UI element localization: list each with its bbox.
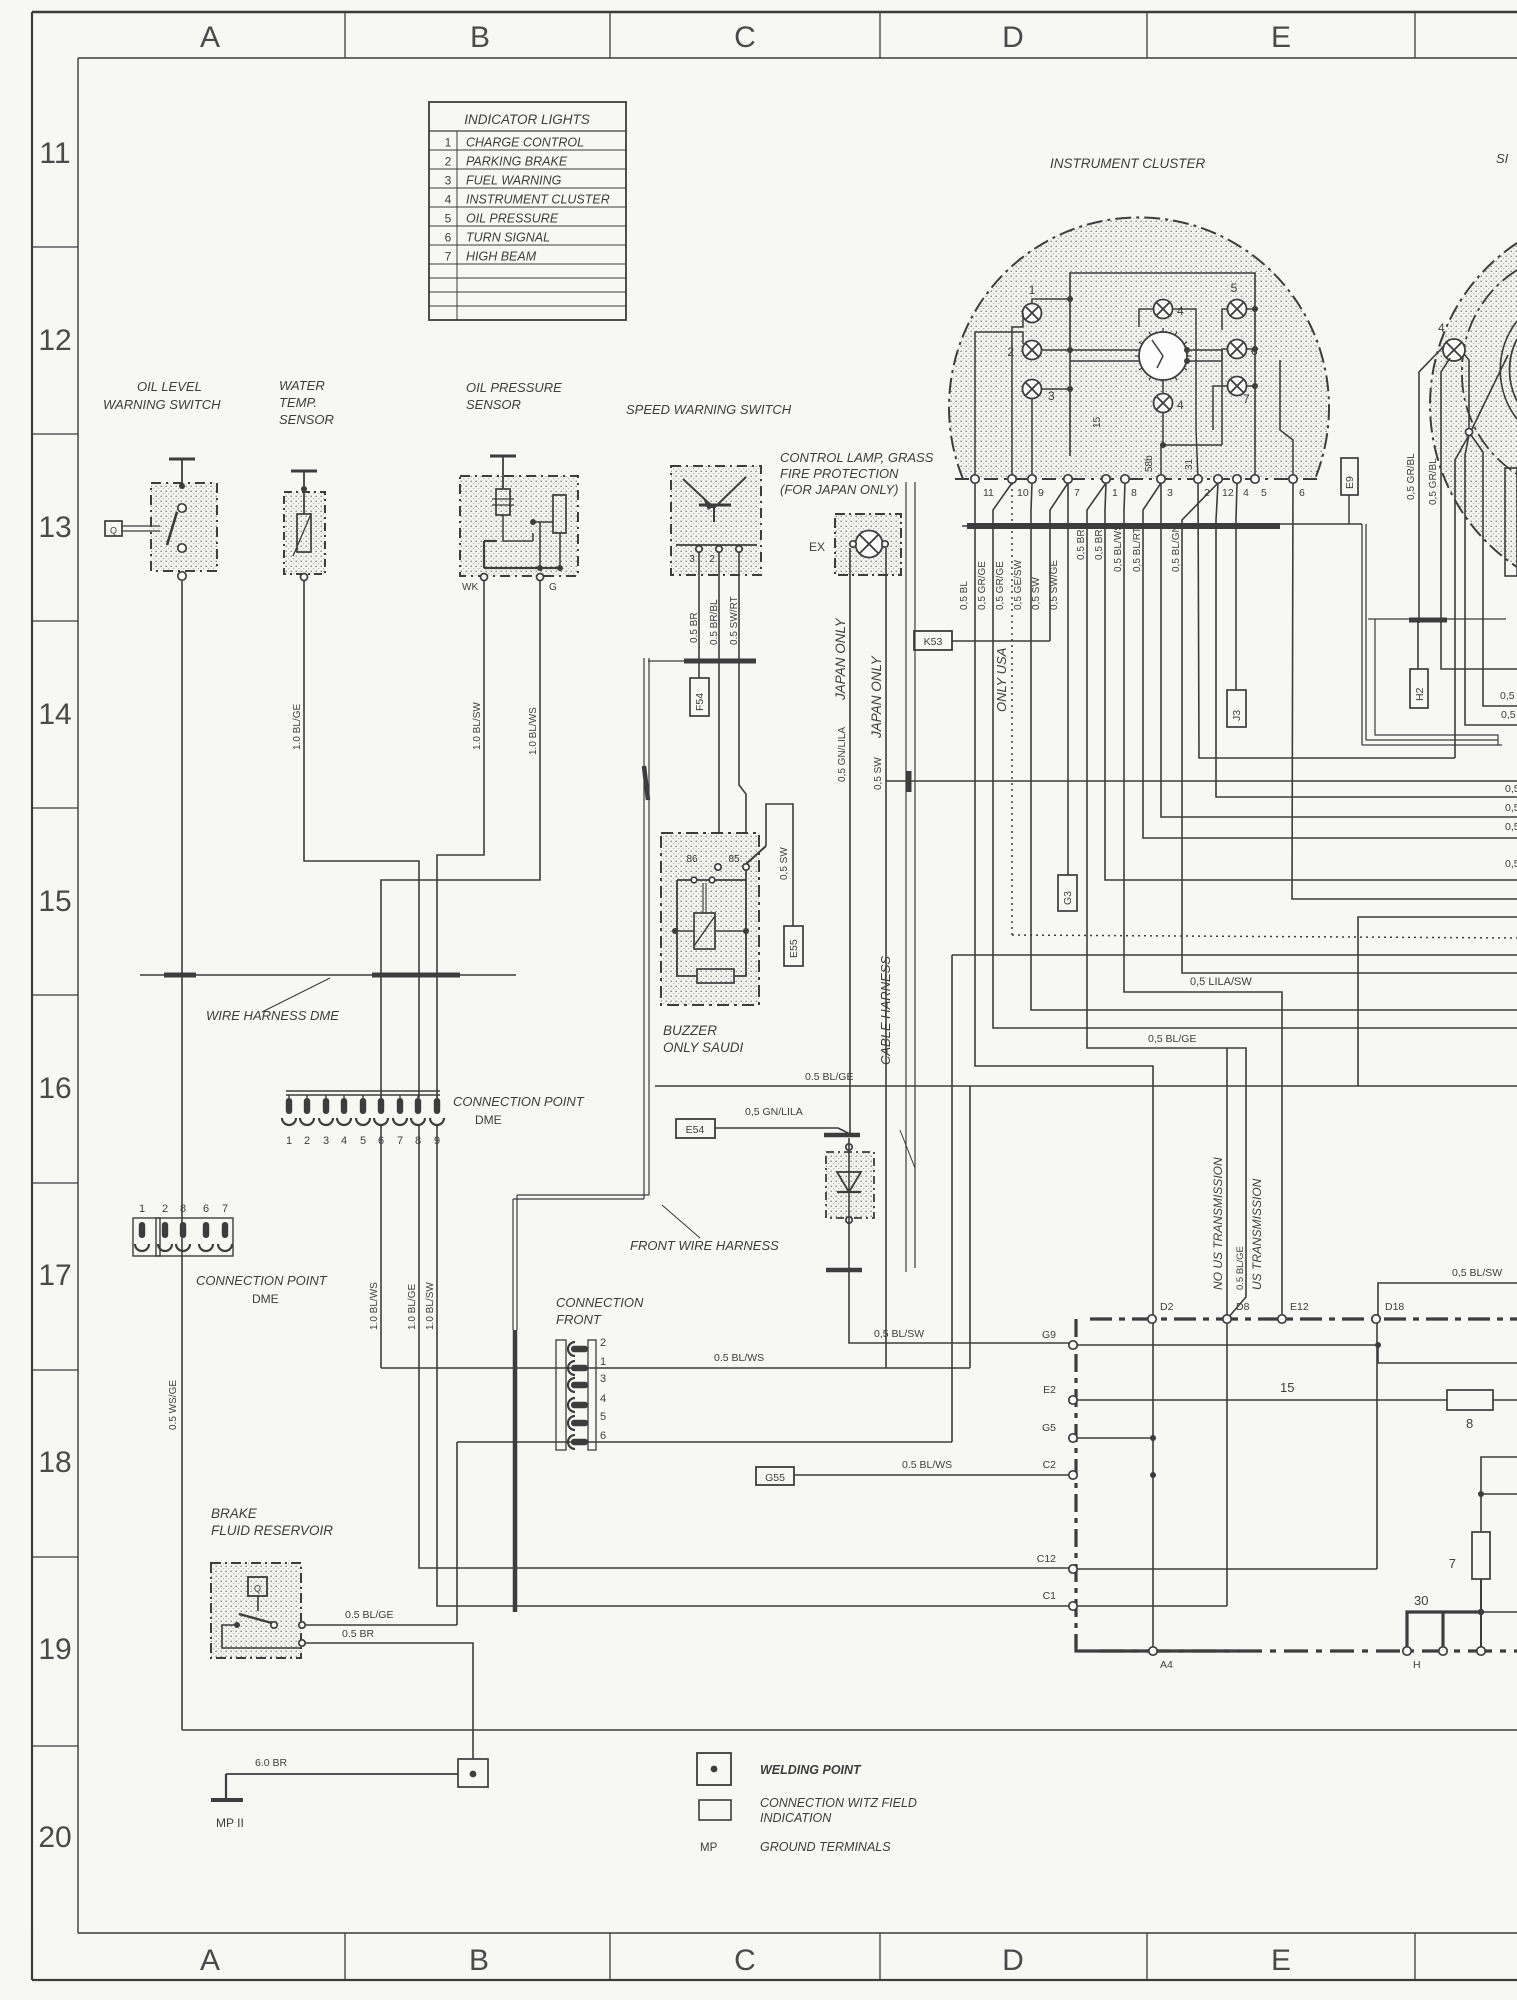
svg-text:8: 8 — [1131, 487, 1137, 499]
wire C2 junction — [1150, 1472, 1156, 1478]
svg-text:JAPAN ONLY: JAPAN ONLY — [833, 617, 848, 701]
svg-text:C: C — [734, 21, 756, 54]
svg-text:3: 3 — [1167, 487, 1173, 499]
svg-text:0,5 BL/GE: 0,5 BL/GE — [1148, 1033, 1196, 1045]
svg-text:6: 6 — [203, 1203, 209, 1215]
svg-text:G5: G5 — [1042, 1422, 1056, 1434]
connector G3 box — [1058, 875, 1077, 911]
svg-text:CONNECTION: CONNECTION — [556, 1295, 644, 1310]
buzzer switch blade — [746, 846, 766, 864]
buzzer internal wiring — [677, 879, 746, 881]
connector field pin C12 — [1069, 1565, 1077, 1573]
cluster bulb 4 bottom illumination — [1154, 394, 1173, 413]
diode pins — [846, 1144, 852, 1150]
svg-text:WK: WK — [462, 582, 478, 593]
wire H bus right — [1481, 1611, 1517, 1613]
cluster pin 6 — [1289, 475, 1297, 483]
svg-text:1.0 BL/WS: 1.0 BL/WS — [369, 1282, 380, 1330]
svg-text:2: 2 — [709, 554, 715, 565]
svg-text:FRONT WIRE HARNESS: FRONT WIRE HARNESS — [630, 1238, 779, 1253]
buzzer coil — [694, 913, 715, 949]
svg-text:4: 4 — [1438, 321, 1445, 335]
svg-text:SENSOR: SENSOR — [279, 412, 334, 427]
indicator lights table frame — [429, 102, 626, 320]
cluster internal wire bulb6 — [1246, 348, 1255, 350]
svg-text:19: 19 — [38, 1633, 71, 1666]
svg-text:8: 8 — [180, 1203, 186, 1215]
cluster bulb 6 turn signal — [1228, 340, 1247, 359]
cable harness channel — [905, 482, 907, 1272]
cluster internal top rail — [1070, 273, 1255, 456]
resistor 7 — [1472, 1532, 1490, 1579]
svg-text:(FOR JAPAN ONLY): (FOR JAPAN ONLY) — [780, 482, 898, 497]
wire cluster pin12 to fan 797 — [1216, 483, 1517, 797]
svg-text:0,5: 0,5 — [1505, 783, 1517, 795]
wire cluster pin3 to fan 817 — [1161, 483, 1517, 817]
svg-text:E: E — [1271, 21, 1291, 54]
svg-text:0,5 GR/BL: 0,5 GR/BL — [1428, 458, 1439, 505]
wire D18 drop to C12 line — [1376, 1323, 1378, 1569]
svg-text:E54: E54 — [686, 1124, 705, 1136]
connection point DME 9-pin connector — [286, 1090, 440, 1092]
svg-text:C: C — [734, 1944, 756, 1977]
svg-text:E9: E9 — [1344, 476, 1356, 489]
svg-text:C12: C12 — [1037, 1553, 1056, 1565]
top header ticks — [344, 12, 346, 58]
svg-text:7: 7 — [1243, 392, 1250, 406]
svg-text:SENSOR: SENSOR — [466, 397, 521, 412]
svg-text:E55: E55 — [788, 939, 800, 958]
oil pressure sensor right element — [553, 495, 566, 533]
svg-text:0,5 SW: 0,5 SW — [779, 847, 790, 880]
wire 0,5 GE/SW — [1050, 483, 1068, 641]
wire 0,5 BL/RT cluster pin3 — [1143, 483, 1517, 838]
svg-text:H: H — [1413, 1659, 1421, 1671]
buzzer right branch — [734, 870, 746, 976]
svg-text:HIGH BEAM: HIGH BEAM — [466, 250, 537, 264]
svg-text:2: 2 — [445, 155, 452, 169]
svg-text:G9: G9 — [1042, 1329, 1056, 1341]
wire harness DME bus — [140, 974, 516, 976]
wire 1.0 BL/WS from oil pressure G to pin6 — [381, 581, 540, 1098]
control lamp box — [835, 514, 901, 575]
brake fluid switch — [234, 1622, 240, 1628]
svg-text:0,5 BL/RT: 0,5 BL/RT — [1132, 527, 1143, 572]
wire 0,5 GR/BL to right edge — [1441, 622, 1517, 669]
svg-text:D: D — [1002, 21, 1024, 54]
connector G55 box — [756, 1467, 794, 1485]
wire 1.0 BL/SW from oil pressure WK to pin9 — [437, 581, 484, 1098]
buzzer resistor — [697, 969, 734, 983]
connector field pin G9 — [1069, 1341, 1077, 1349]
svg-text:WATER: WATER — [279, 378, 325, 393]
svg-text:4: 4 — [600, 1393, 606, 1405]
svg-text:0,5 GR/GE: 0,5 GR/GE — [995, 561, 1006, 610]
cluster pin 3 — [1157, 475, 1165, 483]
svg-text:OIL PRESSURE: OIL PRESSURE — [466, 212, 559, 226]
svg-text:BUZZER: BUZZER — [663, 1023, 717, 1038]
svg-text:20: 20 — [38, 1821, 71, 1854]
wire 0,5 GR/BL first — [1419, 346, 1444, 623]
right cluster bulb 4 — [1443, 339, 1465, 361]
svg-text:1: 1 — [445, 136, 452, 150]
svg-text:WELDING POINT: WELDING POINT — [760, 1763, 862, 1777]
svg-text:F54: F54 — [694, 693, 706, 711]
svg-text:15: 15 — [1280, 1380, 1294, 1395]
cluster internal wire bulb4 bottom — [1162, 380, 1164, 394]
svg-text:7: 7 — [397, 1135, 403, 1147]
svg-text:2: 2 — [1007, 345, 1014, 359]
buzzer pin 86 — [715, 864, 721, 870]
wire cluster pin2 right fan — [1198, 483, 1455, 758]
fuse F54 box — [690, 678, 709, 716]
svg-text:86: 86 — [686, 854, 698, 865]
svg-text:0,5 BL/SW: 0,5 BL/SW — [874, 1328, 924, 1340]
svg-text:OIL PRESSURE: OIL PRESSURE — [466, 380, 562, 395]
svg-text:1: 1 — [139, 1203, 145, 1215]
svg-text:B: B — [470, 21, 490, 54]
ground MP II — [225, 1774, 227, 1799]
svg-text:0.5 BL/WS: 0.5 BL/WS — [714, 1352, 764, 1364]
legend welding point symbol — [697, 1753, 731, 1785]
wire fan 955 — [952, 954, 1517, 956]
buzzer relay box only saudi — [661, 833, 759, 1005]
water temp sensor box — [284, 492, 325, 574]
svg-text:5: 5 — [360, 1135, 366, 1147]
cluster pin 1 — [1102, 475, 1110, 483]
svg-text:0,5 GR/GE: 0,5 GR/GE — [977, 561, 988, 610]
svg-text:DME: DME — [252, 1292, 279, 1306]
bottom long wire — [182, 1729, 1517, 1731]
oil pressure sensor element — [496, 489, 510, 515]
svg-text:1: 1 — [286, 1135, 292, 1147]
svg-text:13: 13 — [38, 511, 71, 544]
cluster pin 8 — [1121, 475, 1129, 483]
svg-text:85: 85 — [728, 854, 740, 865]
svg-text:5: 5 — [1231, 281, 1238, 295]
front wire harness heavy lead — [513, 1330, 518, 1612]
cluster wire to pin5 — [1254, 456, 1256, 479]
svg-text:CABLE HARNESS: CABLE HARNESS — [878, 956, 893, 1065]
wire pin6 line left corner down — [456, 1442, 458, 1625]
wire 6.0 BR — [226, 1773, 458, 1775]
right cluster dial arcs — [1462, 270, 1517, 474]
svg-text:BRAKE: BRAKE — [211, 1506, 258, 1521]
cluster internal wire bulb7 — [1246, 385, 1255, 387]
oil pressure sensor box — [460, 476, 578, 576]
svg-text:C1: C1 — [1043, 1590, 1057, 1602]
wire cluster pin6 to fan 895 — [1292, 483, 1517, 899]
connector field pin E2 — [1069, 1396, 1077, 1404]
cable channel right inner — [1375, 619, 1498, 745]
wire 0.5 SW to E55 — [766, 804, 793, 926]
cable channel right — [1361, 524, 1363, 745]
brake fluid pins — [299, 1622, 305, 1628]
svg-text:DME: DME — [475, 1113, 502, 1127]
svg-text:1.0 BL/WS: 1.0 BL/WS — [528, 707, 539, 755]
cluster pin 12 — [1214, 475, 1222, 483]
wire 970 riser — [969, 1086, 971, 1368]
svg-text:ONLY SAUDI: ONLY SAUDI — [663, 1040, 744, 1055]
wire G9 to D18 junction — [1077, 1344, 1378, 1346]
legend connection witz field symbol — [699, 1800, 731, 1820]
buzzer left branch — [677, 880, 697, 976]
svg-text:CONNECTION WITZ FIELD: CONNECTION WITZ FIELD — [760, 1796, 917, 1810]
front wire harness channel vertical — [643, 658, 645, 1199]
connector field pin E12 — [1278, 1315, 1286, 1323]
inner frame left — [77, 58, 79, 1933]
svg-text:INDICATOR LIGHTS: INDICATOR LIGHTS — [464, 112, 590, 127]
svg-text:1.0 BL/GE: 1.0 BL/GE — [292, 704, 303, 750]
connector field pin A4 — [1149, 1647, 1157, 1655]
svg-text:E12: E12 — [1290, 1301, 1309, 1313]
svg-text:1: 1 — [1029, 283, 1036, 297]
svg-text:3: 3 — [689, 554, 695, 565]
wire 0,5 BL/WS lila/sw cluster pin8 to E12 — [1124, 483, 1282, 1319]
svg-text:15: 15 — [1092, 416, 1103, 428]
wire 0.5 WS/GE oil level down — [181, 581, 183, 1730]
oil pressure sensor pin G — [537, 574, 544, 581]
cluster internal wire bulb3 — [1041, 388, 1070, 390]
svg-text:0,5 BL: 0,5 BL — [959, 581, 970, 610]
svg-text:0,5 BL/GN: 0,5 BL/GN — [1171, 525, 1182, 572]
wire junction right 1363 — [1378, 1345, 1517, 1363]
cluster wire pin6 internal — [1280, 360, 1293, 479]
cluster bulb 7 high beam — [1228, 377, 1247, 396]
control lamp bulb — [856, 531, 883, 558]
oil pressure sensor pin WK — [481, 574, 488, 581]
svg-text:0.5 WS/GE: 0.5 WS/GE — [168, 1380, 179, 1430]
svg-text:G55: G55 — [765, 1472, 785, 1484]
svg-text:CONTROL LAMP, GRASS: CONTROL LAMP, GRASS — [780, 450, 934, 465]
svg-text:15: 15 — [38, 885, 71, 918]
page outer border top — [32, 11, 1517, 14]
svg-text:D2: D2 — [1160, 1301, 1174, 1313]
wire junction diagonal fan — [1455, 435, 1469, 758]
wire D2 drop to A4 — [1152, 1323, 1154, 1647]
wire fan 781 long — [886, 780, 1517, 782]
svg-text:2: 2 — [162, 1203, 168, 1215]
cluster internal wire bulb4 top — [1139, 309, 1154, 327]
connector E9 box — [1341, 458, 1358, 495]
svg-text:Q: Q — [110, 526, 117, 536]
cluster pin 10 — [1008, 475, 1016, 483]
svg-text:MP: MP — [700, 1842, 718, 1854]
svg-text:CONNECTION POINT: CONNECTION POINT — [453, 1094, 585, 1109]
svg-text:0,5 GN/LILA: 0,5 GN/LILA — [745, 1106, 803, 1118]
svg-text:NO US TRANSMISSION: NO US TRANSMISSION — [1211, 1157, 1225, 1290]
svg-text:1.0 BL/SW: 1.0 BL/SW — [472, 702, 483, 750]
svg-text:14: 14 — [38, 698, 71, 731]
svg-text:0.5 BR/BL: 0.5 BR/BL — [709, 599, 720, 645]
wire pin6 down 1.0 BL/WS — [380, 1126, 382, 1368]
wire D8 drop to C1 line — [1226, 1323, 1228, 1606]
right cluster box at edge — [1505, 468, 1517, 576]
wire diode down to G9 line — [849, 1138, 1073, 1343]
oil pressure sensor internal wires — [503, 515, 533, 541]
H2 bus bar — [1409, 618, 1447, 623]
wire 0,5 BL/SW right — [1378, 1283, 1517, 1316]
bottom header band line — [31, 1933, 33, 1980]
wire 0,5 GR/BL second — [1441, 358, 1450, 623]
svg-text:D18: D18 — [1385, 1301, 1404, 1313]
connector field pin G5 — [1069, 1434, 1077, 1442]
svg-text:6.0 BR: 6.0 BR — [255, 1757, 288, 1769]
wire E54 to diode bar — [715, 1127, 838, 1129]
connection point DME 5-pin connector — [135, 1222, 149, 1251]
svg-text:B: B — [469, 1944, 489, 1977]
svg-text:D: D — [1002, 1944, 1024, 1977]
svg-text:FRONT: FRONT — [556, 1312, 602, 1327]
svg-text:Q: Q — [254, 1584, 261, 1594]
brake fluid Q box — [248, 1577, 267, 1596]
svg-text:G: G — [549, 582, 557, 593]
svg-text:0,5 GE/SW: 0,5 GE/SW — [1013, 559, 1024, 610]
wire 1.0 BL/GE from water temp to pin8 — [304, 581, 419, 1098]
svg-text:G3: G3 — [1062, 891, 1074, 905]
svg-text:7: 7 — [445, 250, 452, 264]
svg-text:H2: H2 — [1414, 687, 1426, 701]
connector field pin H — [1403, 1647, 1411, 1655]
svg-text:12: 12 — [38, 324, 71, 357]
svg-text:INSTRUMENT CLUSTER: INSTRUMENT CLUSTER — [1050, 156, 1206, 171]
wire C1 to D8 drop — [1077, 1605, 1227, 1607]
svg-text:8: 8 — [1466, 1416, 1473, 1431]
svg-text:3: 3 — [1048, 389, 1055, 403]
svg-text:K53: K53 — [924, 636, 943, 648]
wire G5 to D2 drop — [1077, 1437, 1153, 1439]
wire pin9 down 1.0 BL/SW — [437, 1126, 1073, 1606]
svg-text:J3: J3 — [1231, 710, 1243, 721]
wire 0,5 GE/SW cluster pin9 down — [1031, 483, 1517, 1010]
cluster pin 9 — [1028, 475, 1036, 483]
svg-text:A: A — [200, 21, 220, 54]
wire 0.5 SW/RT from speed switch — [739, 552, 746, 867]
cluster bus thin extension — [1280, 523, 1362, 525]
connector E55 box — [784, 926, 803, 966]
wire fan 917 long — [1358, 917, 1517, 1086]
svg-text:16: 16 — [38, 1072, 71, 1105]
svg-text:TEMP.: TEMP. — [279, 395, 317, 410]
svg-text:0,5: 0,5 — [1505, 858, 1517, 870]
svg-text:30: 30 — [1414, 1593, 1428, 1608]
svg-text:0,5 SW: 0,5 SW — [1031, 577, 1042, 610]
connector field pin D8 — [1223, 1315, 1231, 1323]
svg-text:CHARGE CONTROL: CHARGE CONTROL — [466, 136, 584, 150]
svg-text:3: 3 — [323, 1135, 329, 1147]
diode lower bar — [826, 1268, 862, 1273]
svg-text:GROUND TERMINALS: GROUND TERMINALS — [760, 1840, 891, 1854]
welding point square on wire — [458, 1759, 488, 1787]
svg-text:OIL LEVEL: OIL LEVEL — [137, 379, 202, 394]
svg-text:31: 31 — [1184, 458, 1195, 470]
wire 0.5 BR brake to welding point — [305, 1643, 473, 1759]
wire NO US TRANSMISSION to D8 — [1226, 1048, 1228, 1319]
cluster bulb 5 oil pressure — [1228, 300, 1247, 319]
svg-text:3: 3 — [600, 1373, 606, 1385]
svg-text:WIRE HARNESS DME: WIRE HARNESS DME — [206, 1008, 339, 1023]
wire fan 1086 long — [655, 1085, 1517, 1087]
speed warning switch symbol — [683, 479, 714, 508]
svg-text:US TRANSMISSION: US TRANSMISSION — [1250, 1178, 1264, 1290]
svg-text:MP II: MP II — [216, 1816, 244, 1830]
wire 0,5 SW to K53 — [952, 640, 1050, 642]
svg-text:1.0 BL/GE: 1.0 BL/GE — [407, 1284, 418, 1330]
svg-text:SI: SI — [1496, 151, 1509, 166]
cluster clock — [1135, 328, 1191, 384]
top header band bottom line — [78, 57, 1517, 59]
brake fluid reservoir box — [211, 1563, 301, 1658]
bus bar under speed warning switch — [684, 659, 756, 664]
svg-text:E: E — [1271, 1944, 1291, 1977]
cluster pin 11 — [971, 475, 979, 483]
speed warning switch pins — [676, 544, 757, 546]
svg-text:A: A — [200, 1944, 220, 1977]
svg-text:FUEL WARNING: FUEL WARNING — [466, 174, 562, 188]
svg-text:10: 10 — [1017, 487, 1029, 499]
svg-text:C2: C2 — [1043, 1459, 1057, 1471]
svg-text:0.5 BR: 0.5 BR — [342, 1628, 375, 1640]
svg-text:EX: EX — [809, 540, 825, 554]
connector field bottom dash-dot line — [1076, 1634, 1240, 1651]
connector H2 box — [1410, 669, 1428, 708]
svg-text:0.5 BR: 0.5 BR — [689, 612, 700, 643]
wire 0,5 BR second — [1105, 483, 1517, 880]
diode box — [826, 1152, 874, 1218]
oil level warning switch B40 box — [151, 483, 217, 571]
wire 0,5 BR first — [1087, 483, 1246, 1319]
svg-text:9: 9 — [1038, 487, 1044, 499]
svg-text:E2: E2 — [1043, 1384, 1056, 1396]
svg-text:1.0 BL/SW: 1.0 BL/SW — [425, 1282, 436, 1330]
svg-text:1: 1 — [600, 1356, 606, 1368]
svg-text:3: 3 — [445, 174, 452, 188]
svg-text:4: 4 — [1177, 398, 1184, 412]
svg-text:0,5: 0,5 — [1505, 802, 1517, 814]
svg-text:0,5 LILA/SW: 0,5 LILA/SW — [1190, 976, 1252, 988]
cluster pin 2 — [1194, 475, 1202, 483]
svg-text:0,5 GR/BL: 0,5 GR/BL — [1406, 453, 1417, 500]
svg-text:4: 4 — [445, 193, 452, 207]
svg-text:0,5 BR: 0,5 BR — [1076, 529, 1087, 560]
svg-text:58b: 58b — [1144, 455, 1155, 472]
svg-text:0,5: 0,5 — [1505, 821, 1517, 833]
wire 0,5 BL cluster pin11 to D2 — [975, 483, 1153, 1319]
svg-text:FIRE PROTECTION: FIRE PROTECTION — [780, 466, 899, 481]
instrument cluster bottom dash line — [955, 478, 1322, 480]
wire E9 to bus extension — [1348, 495, 1350, 524]
connector field left dash-dot line — [1074, 1319, 1077, 1648]
page outer border left — [31, 12, 33, 1980]
svg-text:0,5 SW: 0,5 SW — [873, 757, 884, 790]
wire E2 to fuse line 15 — [1077, 1399, 1447, 1401]
cluster internal clock wires — [1070, 349, 1139, 351]
diode top bar — [824, 1133, 860, 1138]
wire C12 to D18 drop — [1077, 1568, 1377, 1570]
svg-text:INSTRUMENT CLUSTER: INSTRUMENT CLUSTER — [466, 193, 610, 207]
svg-text:WARNING SWITCH: WARNING SWITCH — [103, 397, 221, 412]
wire 0,5 GN/LILA japan only — [849, 548, 851, 1134]
svg-text:PARKING BRAKE: PARKING BRAKE — [466, 155, 568, 169]
svg-text:8: 8 — [415, 1135, 421, 1147]
svg-text:0,5 BL/SW: 0,5 BL/SW — [1452, 1267, 1502, 1279]
svg-text:0.5 BL/GE: 0.5 BL/GE — [805, 1071, 853, 1083]
wire only usa dotted — [1011, 483, 1013, 935]
page outer border bottom — [32, 1979, 1517, 1981]
connector field pin D18 — [1372, 1315, 1380, 1323]
fuse 8 — [1447, 1390, 1493, 1410]
cluster bulb 1 charge control — [1023, 304, 1042, 323]
